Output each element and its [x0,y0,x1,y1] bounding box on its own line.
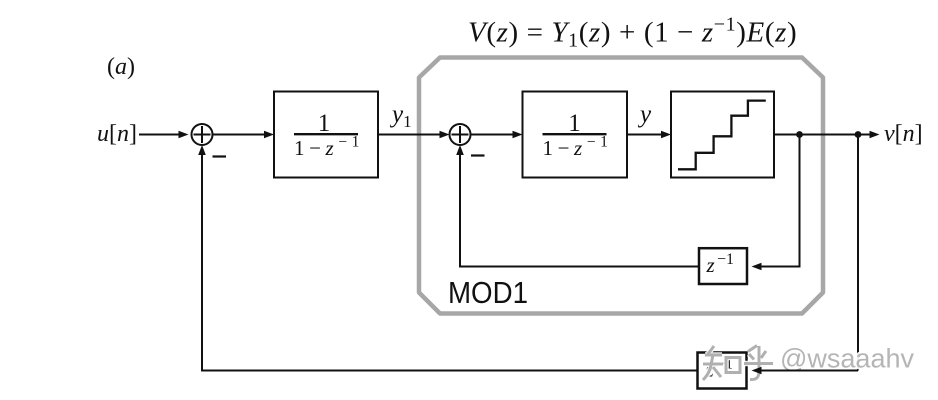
svg-text:z: z [706,253,715,277]
wire Q to output v[n] [774,131,880,139]
svg-text:u[n]: u[n] [97,121,137,147]
svg-text:V(z) = Y1(z) + (1 − z−1)E(z): V(z) = Y1(z) + (1 − z−1)E(z) [468,14,797,52]
svg-text:y1: y1 [389,101,412,131]
label (a) [107,54,135,80]
wire H1 to summer S2 [378,131,450,139]
svg-text:−1: −1 [717,251,734,268]
svg-text:v[n]: v[n] [884,121,923,147]
equation V(z) = Y1(z) + (1 - z^-1)E(z) [468,14,797,52]
inner feedback wire to S2 [456,145,698,267]
svg-text:1: 1 [318,110,331,137]
delay block Z1 (inner z^-1) [699,248,747,284]
summing junction S1 [192,124,213,145]
svg-text:1: 1 [568,110,581,137]
wire S1 to integrator H1 [213,131,275,139]
integrator block H2 [523,92,628,178]
quantizer block Q [671,92,774,178]
svg-text:(a): (a) [107,54,135,80]
minus sign at S2 [471,154,485,156]
outer feedback wire to delay Z2 [752,367,859,375]
integrator block H1 [274,92,378,178]
wire H2 to quantizer Q [627,131,671,139]
watermark @wsaaahv text [780,344,914,374]
summing junction S2 [450,124,471,145]
minus sign at S1 [213,155,227,157]
svg-text:MOD1: MOD1 [448,275,528,310]
input label u[n] [97,121,137,147]
MOD1 text label [448,275,528,310]
node label y1 [389,101,412,131]
delay block Z2 (outer z^-1) [698,353,747,389]
outer feedback wire down from junction [857,135,859,371]
inner feedback wire down from junction [752,135,800,271]
wire u[n] to summer S1 [139,131,189,139]
svg-text:y: y [637,101,652,128]
junction node inside MOD1 [796,131,803,138]
svg-text:@wsaaahv: @wsaaahv [780,344,914,374]
junction node outer [855,131,862,138]
node label y [637,101,652,128]
watermark zhihu glyphs [703,346,773,381]
wire S2 to integrator H2 [471,131,523,139]
MOD1 boundary box [419,58,823,314]
output label v[n] [884,121,923,147]
outer feedback wire to S1 [198,145,698,371]
